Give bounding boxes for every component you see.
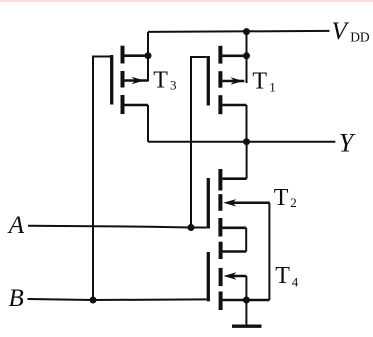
label T3 bbox=[153, 67, 176, 93]
wire: T2 source to T4 drain bbox=[245, 228, 247, 252]
junction: VDD rail / T1 drain bbox=[243, 28, 250, 35]
transistor T1 bbox=[208, 46, 246, 114]
wire: T2 bulk to ground node bbox=[268, 203, 270, 300]
label VDD bbox=[332, 18, 370, 45]
wire: T1 drain/bulk link bbox=[246, 32, 248, 83]
svg-text:1: 1 bbox=[269, 79, 276, 94]
junction: T1 drain node bbox=[243, 52, 250, 59]
wire: input A line bbox=[28, 226, 207, 228]
label T1 bbox=[252, 69, 275, 95]
svg-text:T: T bbox=[153, 67, 168, 93]
label T2 bbox=[274, 185, 297, 211]
transistor T3 bbox=[112, 46, 148, 114]
transistor T2 bbox=[208, 169, 269, 237]
wire: Y output line bbox=[148, 141, 335, 143]
svg-text:B: B bbox=[9, 285, 24, 312]
wire: Y to T2 drain bbox=[246, 142, 248, 179]
wire: T1 source to Y bbox=[246, 105, 248, 142]
svg-text:Y: Y bbox=[339, 128, 356, 157]
svg-text:3: 3 bbox=[170, 77, 177, 92]
wire: B to T3 gate bbox=[93, 57, 110, 301]
wire: T3 source to Y bbox=[147, 105, 149, 142]
svg-text:2: 2 bbox=[290, 195, 297, 210]
wire: input B line bbox=[28, 299, 207, 300]
wire: VDD rail bbox=[148, 31, 330, 32]
junction: node B split bbox=[90, 297, 97, 304]
svg-text:DD: DD bbox=[350, 29, 370, 44]
svg-text:T: T bbox=[252, 69, 267, 95]
wire: T4 source to ground bbox=[245, 300, 247, 326]
svg-text:4: 4 bbox=[292, 274, 299, 289]
junction: node Y bbox=[243, 138, 250, 145]
transistor T4 bbox=[208, 242, 269, 310]
ground bbox=[232, 325, 262, 328]
junction: T3 drain node bbox=[145, 52, 152, 59]
svg-text:T: T bbox=[275, 263, 290, 289]
svg-text:A: A bbox=[7, 212, 25, 239]
wire: T3 drain/bulk link bbox=[147, 32, 149, 82]
junction: node A split bbox=[188, 224, 195, 231]
wire: A to T1 gate bbox=[191, 57, 207, 228]
junction: T4 source / bulk / ground bbox=[243, 297, 250, 304]
svg-text:T: T bbox=[274, 185, 289, 211]
label T4 bbox=[275, 263, 299, 289]
wire: T4 bulk to source bbox=[245, 276, 247, 300]
